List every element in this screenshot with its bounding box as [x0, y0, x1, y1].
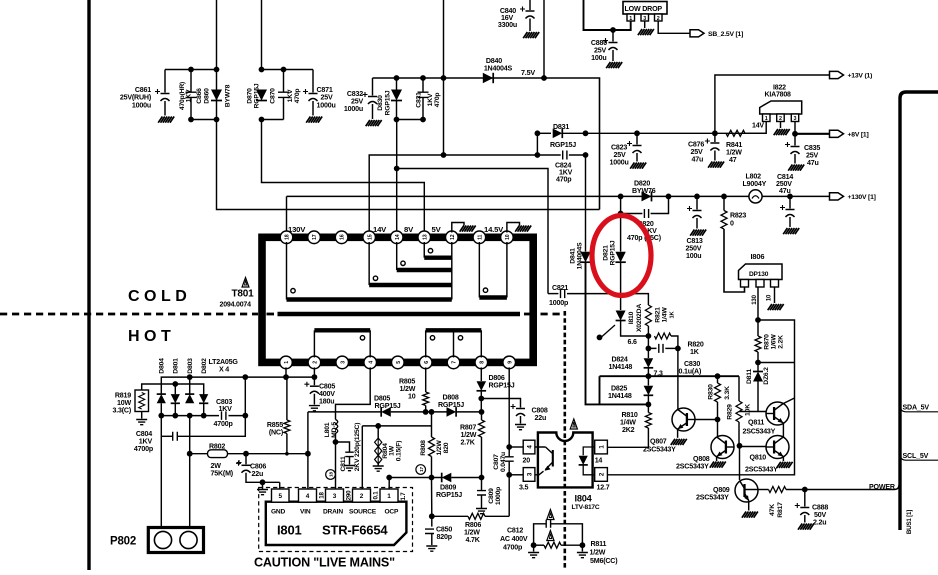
svg-text:14: 14: [595, 457, 603, 465]
svg-text:13: 13: [422, 234, 428, 240]
wire R808 bottom lead: [431, 457, 433, 478]
svg-text:MD-5: MD-5: [331, 422, 338, 438]
wire C805 bottom: [313, 394, 315, 405]
ground R819: [136, 420, 147, 425]
svg-text:RGP15J: RGP15J: [438, 401, 464, 409]
resistor R807: [479, 420, 485, 437]
svg-text:0.15(F): 0.15(F): [395, 441, 402, 462]
ground C888: [798, 524, 814, 530]
thyristor I810 gate: [601, 325, 615, 337]
capacitor C812: [546, 520, 550, 528]
wire column D860 net: [217, 0, 600, 210]
junction wire A x444: [441, 152, 447, 158]
wire D831 anode stub: [537, 132, 551, 134]
wire SOURCE riser: [361, 426, 363, 489]
transformer pin 9: [503, 356, 516, 369]
diode D840: [483, 73, 493, 83]
wire R870 bottom: [757, 352, 759, 363]
marker circled 18: [326, 470, 336, 480]
resistor R804 fusible: [375, 438, 382, 464]
pin 2 I801 SOURCE: [353, 489, 371, 502]
transformer pin 1: [280, 356, 293, 369]
svg-text:STR-F6654: STR-F6654: [322, 523, 388, 538]
svg-text:D841: D841: [569, 248, 576, 264]
diode D801: [171, 394, 180, 403]
wire R817 to POWER: [786, 485, 899, 490]
wire C812 gnd left stub: [533, 545, 535, 551]
phase dot primary 1: [360, 336, 364, 340]
wire I806 pin3 lead: [774, 287, 776, 303]
svg-text:20: 20: [523, 457, 531, 465]
wire R830 bottom: [717, 402, 719, 420]
svg-text:(NC): (NC): [269, 429, 284, 437]
svg-text:2SC5343Y: 2SC5343Y: [696, 494, 729, 502]
IC low drop regulator body: [623, 2, 667, 15]
svg-text:2SC5343Y: 2SC5343Y: [643, 446, 676, 454]
wire pin10 ground: [507, 223, 520, 233]
svg-text:R829: R829: [726, 404, 733, 420]
junction bridge C D804: [158, 413, 164, 419]
junction 7.5V rail x444: [441, 75, 447, 81]
svg-text:SCL_5V: SCL_5V: [903, 452, 929, 460]
wire R829 bottom: [738, 422, 740, 446]
wire D809 to R807: [451, 477, 481, 479]
transistor Q809: [735, 479, 758, 502]
wire low drop pin1 to C880 node: [584, 0, 631, 30]
warning triangle C812 top: [547, 510, 554, 520]
svg-text:4700p: 4700p: [503, 544, 523, 552]
wire C811 bottom: [349, 457, 351, 465]
capacitor C803: [222, 411, 226, 420]
wire D811 bottom lead: [757, 382, 759, 412]
pin 3 I804: [523, 468, 535, 482]
svg-text:2.2K: 2.2K: [777, 335, 784, 349]
junction D831 C824 right bottom: [583, 152, 589, 158]
wire C850 wire: [432, 515, 468, 517]
svg-text:12.7: 12.7: [597, 484, 610, 492]
wire C835 stem: [794, 134, 796, 146]
wire C840 stem: [529, 0, 531, 10]
capacitor C850: [425, 529, 434, 533]
svg-text:1K: 1K: [690, 348, 700, 356]
svg-text:12: 12: [450, 234, 456, 240]
capacitor C888: [800, 507, 809, 509]
wire C835 to ground: [794, 154, 796, 164]
svg-text:17: 17: [312, 234, 318, 240]
opto LED: [579, 456, 588, 465]
ground C850: [426, 546, 437, 551]
transformer pin 6: [419, 356, 432, 369]
svg-text:C831: C831: [415, 92, 422, 108]
junction +8V node: [792, 131, 798, 137]
junction D860 bottom: [214, 117, 220, 123]
wire C876 stem: [714, 133, 716, 142]
svg-text:17: 17: [419, 467, 424, 472]
ground Q808: [710, 462, 726, 468]
pin 2 low drop: [655, 14, 663, 21]
wire Q807 base wire: [695, 419, 718, 421]
wire R802 right lead: [228, 453, 247, 455]
phase dot 14V winding: [373, 276, 377, 280]
ground Q809: [742, 512, 758, 518]
winding bar 8V: [397, 268, 452, 272]
wire Q809 top lead: [739, 446, 741, 480]
svg-text:2K2: 2K2: [622, 426, 635, 434]
wire C812 gnd right stub: [581, 545, 583, 551]
wire thick Y1: [600, 375, 740, 377]
winding 14.5V pin10 lead: [506, 242, 508, 298]
svg-text:470p: 470p: [556, 176, 572, 184]
svg-text:+13V (1): +13V (1): [848, 73, 873, 80]
wire 8V feed from pin14: [396, 120, 398, 233]
capacitor C870: [278, 92, 289, 97]
svg-text:LTV-817C: LTV-817C: [572, 504, 600, 511]
flag +8V: [830, 130, 844, 137]
junction C811 node: [333, 439, 339, 445]
wire pin12 ground: [452, 223, 464, 233]
wire C821 right to R821: [567, 294, 648, 305]
ground C871: [306, 117, 322, 123]
winding bar 14V: [369, 283, 452, 287]
wire pin6 lead: [425, 367, 427, 392]
diode D803: [185, 394, 194, 403]
resistor R823: [721, 211, 727, 230]
wire T801 pin1 lead: [285, 367, 287, 377]
wire C824 right lead: [569, 154, 586, 156]
capacitor C807: [505, 457, 514, 461]
opto phototransistor: [535, 447, 553, 475]
diode D860: [211, 90, 222, 101]
svg-text:DZ6.2: DZ6.2: [763, 367, 770, 385]
wire C813 to ground: [696, 218, 698, 229]
wire R855 top: [286, 377, 288, 420]
capacitor C880: [609, 42, 618, 44]
junction I806 pin2 node: [755, 317, 761, 323]
wire 7.5V rail: [373, 78, 600, 210]
svg-text:0.047u: 0.047u: [500, 452, 507, 472]
svg-text:VIN: VIN: [300, 509, 311, 516]
transformer pin 16: [335, 231, 348, 244]
svg-text:R823: R823: [730, 212, 746, 220]
wire C830 left stub: [648, 336, 656, 348]
svg-text:I804: I804: [575, 494, 593, 504]
svg-text:L801: L801: [324, 422, 331, 437]
wire SOURCE wire to R808: [378, 425, 431, 427]
svg-text:100u: 100u: [591, 54, 606, 62]
wire opto pin2 to I806 pin2: [607, 320, 794, 475]
wire D825 top: [647, 376, 649, 385]
wire R811 right lead: [561, 544, 582, 546]
wire R806 to C807 column: [485, 515, 509, 517]
junction D820 anode node: [618, 194, 624, 200]
svg-text:1: 1: [765, 116, 768, 122]
wire 14V feed from pin15: [369, 155, 537, 232]
svg-text:2: 2: [313, 361, 319, 364]
transformer pin 5: [392, 356, 405, 369]
svg-text:25V(RUH): 25V(RUH): [120, 94, 152, 102]
wire +130V rail main: [287, 195, 830, 197]
wire C820 branch: [620, 196, 622, 213]
resistor R841: [726, 130, 745, 136]
wire Y1 to R829: [738, 376, 740, 401]
svg-text:DRAIN: DRAIN: [323, 509, 343, 516]
diode D870: [256, 90, 267, 101]
junction D870 bottom: [259, 117, 265, 123]
svg-text:47u: 47u: [779, 187, 791, 195]
svg-text:T801: T801: [232, 289, 255, 300]
resistor R819 box: [135, 390, 149, 412]
ground C880: [606, 62, 622, 68]
resistor R808: [429, 437, 435, 457]
wire R841 to I822 pin1: [745, 122, 766, 134]
wire C820 right lead: [651, 196, 669, 213]
svg-text:1/2W: 1/2W: [436, 440, 443, 456]
svg-text:1N4004S: 1N4004S: [484, 65, 513, 73]
wire R810 bottom to opto pin1 wire: [607, 428, 648, 447]
wire D811 top lead: [757, 363, 759, 372]
svg-text:DP130: DP130: [749, 271, 769, 278]
ground C814: [783, 228, 799, 234]
svg-text:2SC5343Y: 2SC5343Y: [676, 463, 709, 471]
wire bridge branch down: [244, 377, 246, 416]
transformer pin 14: [390, 231, 403, 244]
svg-text:+8V [1]: +8V [1]: [848, 131, 869, 138]
svg-text:3: 3: [333, 493, 337, 500]
wire D870 block top rail: [262, 69, 314, 71]
wire D870 block bottom rail: [262, 119, 284, 121]
resistor R806: [468, 513, 485, 519]
wire R823 top stub: [723, 196, 725, 210]
ground C861: [158, 117, 174, 123]
diode D808: [447, 407, 457, 417]
svg-text:+130V [1]: +130V [1]: [848, 194, 876, 201]
winding aux pin7 lead: [453, 330, 455, 357]
capacitor C823: [633, 145, 642, 147]
transformer pin 17: [308, 231, 321, 244]
svg-text:6.6: 6.6: [628, 339, 637, 346]
phase dot 5V winding: [428, 249, 432, 253]
wire D830 block bottom rail: [397, 119, 424, 121]
transistor Q807: [672, 408, 695, 431]
svg-text:1: 1: [387, 493, 391, 500]
wire column x444: [443, 0, 445, 155]
winding aux pin6 lead: [425, 330, 427, 357]
junction bridge A D803: [187, 374, 193, 380]
transformer T801 core rectangle: [262, 237, 533, 362]
wire C806 stem: [245, 454, 247, 465]
junction R821 R820: [646, 333, 652, 339]
svg-text:16: 16: [340, 234, 346, 240]
winding 14V pin15 lead: [368, 242, 370, 285]
svg-text:R811: R811: [591, 540, 607, 548]
warning triangle C812 bottom: [547, 531, 554, 541]
wire D801 bottom lead: [174, 403, 176, 415]
svg-text:100u: 100u: [686, 252, 701, 260]
junction C806 top: [243, 451, 249, 457]
wire C861 stem: [164, 70, 166, 93]
svg-text:18: 18: [329, 472, 334, 477]
svg-text:2KV 220p(125C): 2KV 220p(125C): [354, 423, 361, 472]
diode D806: [477, 381, 487, 391]
wire C814 stem: [789, 196, 791, 208]
svg-text:R821: R821: [654, 307, 661, 323]
cold/hot separator dash inside transformer right: [524, 313, 531, 316]
svg-text:OCP: OCP: [385, 509, 399, 516]
capacitor C831: [418, 92, 429, 97]
bus line BUS1 right: [900, 92, 938, 530]
junction C813: [694, 194, 700, 200]
wire C832 stem: [372, 78, 374, 96]
svg-text:Q810: Q810: [750, 454, 767, 462]
ground low drop pin3: [638, 29, 654, 35]
connector P802 body: [148, 528, 203, 553]
wire C861 to ground: [164, 101, 166, 116]
svg-text:3.3K: 3.3K: [724, 386, 731, 400]
wire C808 wire: [481, 399, 520, 408]
junction 7.5V rail C840 branch: [541, 75, 547, 81]
wire C821 left: [548, 293, 558, 295]
resistor R811: [544, 542, 561, 548]
capacitor C821: [561, 289, 565, 298]
capacitor C814: [786, 209, 795, 211]
transformer pin 11: [473, 231, 486, 244]
wire I822 pin2 stub: [780, 122, 782, 129]
diode D811 zener: [753, 372, 763, 382]
wire D860 block bottom rail: [191, 119, 217, 121]
junction bridge A pin1: [283, 374, 289, 380]
wire T801 pin2 lead: [313, 367, 315, 377]
svg-text:D870: D870: [246, 88, 253, 104]
wire C888 bottom: [804, 515, 806, 523]
cold/hot separator dash inside transformer left: [267, 313, 275, 316]
wire R820 right: [671, 336, 678, 348]
svg-text:1N4148: 1N4148: [608, 392, 632, 400]
svg-text:47u: 47u: [692, 156, 704, 164]
wire bridge top rail B: [142, 384, 204, 395]
svg-text:RGP15J: RGP15J: [489, 382, 515, 390]
svg-text:3: 3: [643, 16, 646, 22]
wire D802 bottom lead: [203, 403, 205, 415]
junction D825 Y2: [646, 402, 652, 408]
diode D805: [381, 407, 391, 417]
svg-text:1000p: 1000p: [549, 299, 569, 307]
svg-text:2.7K: 2.7K: [461, 439, 476, 447]
wire C804 right lead: [177, 416, 245, 437]
wire 8V feed to C821 column: [397, 169, 548, 294]
capacitor C813: [693, 210, 702, 212]
diode D825: [644, 386, 654, 396]
svg-text:47: 47: [729, 156, 737, 164]
wire C809 stem: [481, 478, 483, 491]
wire C809 bottom: [481, 495, 483, 508]
wire D808 to R807: [456, 411, 481, 413]
pin 1 I806: [741, 280, 749, 288]
junction C830 left: [646, 346, 652, 352]
wire D831 C824 left join: [536, 133, 538, 155]
junction C866 top: [188, 67, 194, 73]
svg-text:LOW DROP: LOW DROP: [625, 5, 663, 13]
pin 3 low drop: [641, 14, 649, 21]
svg-text:0.1u(A): 0.1u(A): [679, 368, 702, 376]
wire Q810 emitter: [782, 457, 784, 462]
wire Q808 emitter: [716, 457, 718, 461]
wire OCP feedback rail: [389, 477, 442, 479]
junction R808 top: [429, 409, 435, 415]
svg-text:R802: R802: [209, 443, 225, 451]
svg-text:22u: 22u: [252, 470, 264, 478]
wire +130V rail: [286, 196, 288, 232]
svg-text:X 4: X 4: [219, 366, 229, 374]
wire Q811 emitter to Q810: [782, 423, 784, 438]
svg-text:BYW78: BYW78: [224, 84, 231, 107]
svg-text:HOT: HOT: [128, 328, 175, 345]
svg-text:C809: C809: [488, 488, 495, 504]
phase dot aux 2: [458, 336, 462, 340]
svg-text:290: 290: [345, 490, 352, 500]
wire VIN riser: [307, 412, 309, 489]
wire bridge top rail A: [161, 377, 314, 393]
cold/hot separator long bar inside transformer: [278, 312, 521, 317]
svg-text:4.7K: 4.7K: [466, 536, 481, 544]
svg-text:4700p: 4700p: [214, 420, 234, 428]
wire Q811 base wire: [739, 411, 766, 413]
svg-text:47K: 47K: [769, 504, 776, 516]
junction C876: [712, 130, 718, 136]
wire SCL_5V tick: [900, 454, 938, 461]
resistor R817: [769, 487, 787, 493]
flag SB_2.5V: [690, 30, 704, 37]
svg-text:130V: 130V: [288, 225, 306, 234]
wire C811 stub: [336, 442, 350, 452]
wire +13V branch: [715, 75, 830, 133]
diode D841: [580, 252, 590, 262]
junction R830 top: [715, 373, 721, 379]
phase dot 130V winding: [291, 289, 295, 293]
junction bridge C right: [242, 413, 248, 419]
junction OCP node: [386, 475, 392, 481]
wire Q808 collector: [717, 420, 719, 439]
wire D830 top stub: [396, 78, 398, 90]
wire bridge bottom rail C2: [229, 415, 246, 417]
junction R804 top: [375, 423, 381, 429]
junction D870 top: [259, 67, 265, 73]
winding primary pin4 lead: [369, 330, 371, 357]
svg-text:4700p: 4700p: [134, 445, 154, 453]
diode D802: [199, 394, 208, 403]
wire C870 bottom stub: [283, 97, 285, 119]
junction bridge C D802: [201, 413, 207, 419]
diode D830: [391, 90, 402, 101]
wire D841 column lower: [586, 262, 649, 404]
wire P802 lead right: [189, 416, 191, 533]
ground IC gnd: [257, 490, 268, 495]
resistor R821: [645, 305, 651, 326]
inductor L802: [749, 190, 762, 203]
pin 3 I822: [791, 114, 798, 122]
wire R802 left lead: [190, 453, 208, 455]
winding 8V pin14 lead: [396, 242, 398, 270]
capacitor C811: [345, 452, 354, 456]
wire R805 bottom lead: [425, 406, 427, 412]
connector P802 circle 2: [180, 531, 197, 548]
svg-text:9: 9: [507, 361, 513, 364]
pin 3 I801 DRAIN: [326, 489, 344, 502]
wire thick Y1-Y2 link: [599, 376, 601, 404]
ground C832: [366, 120, 382, 126]
svg-text:8V: 8V: [404, 225, 414, 234]
winding bar aux: [426, 328, 482, 332]
capacitor C806 plus: [237, 460, 242, 465]
